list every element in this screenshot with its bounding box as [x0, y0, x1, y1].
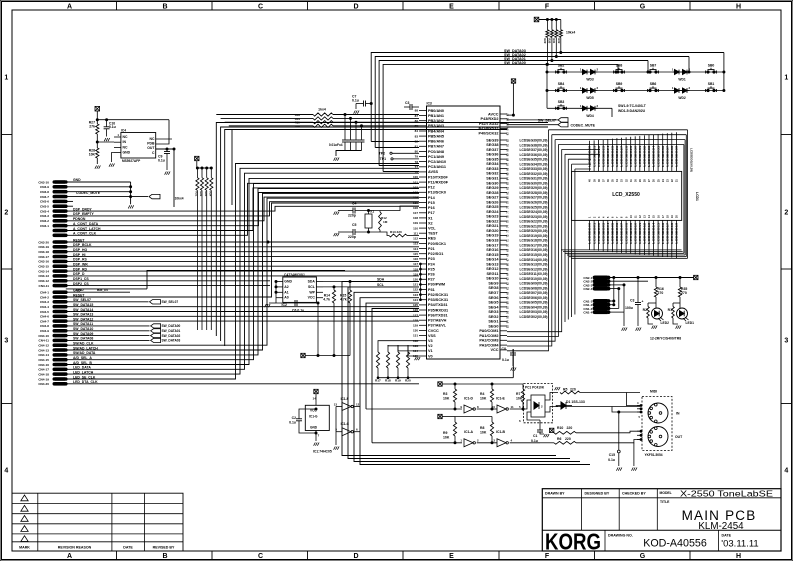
svg-text:GND: GND [284, 280, 292, 284]
svg-text:10: 10 [492, 405, 496, 409]
svg-text:TP2: TP2 [379, 152, 385, 156]
svg-text:X-2550 ToneLabSE: X-2550 ToneLabSE [680, 488, 773, 498]
svg-text:10kx4: 10kx4 [175, 197, 184, 201]
svg-text:CN4-7: CN4-7 [40, 319, 49, 323]
svg-text:SEG13: SEG13 [486, 262, 498, 266]
svg-text:R23: R23 [204, 192, 208, 197]
svg-text:G: G [640, 3, 646, 10]
svg-text:LCDSEG19(X0,39): LCDSEG19(X0,39) [520, 234, 548, 238]
svg-text:P11/RXD0F: P11/RXD0F [428, 181, 449, 185]
svg-text:1: 1 [784, 75, 788, 82]
svg-text:4: 4 [4, 468, 8, 475]
svg-text:P43/RXD2: P43/RXD2 [481, 117, 499, 121]
svg-text:CN3-15: CN3-15 [38, 265, 49, 269]
svg-text:LCDSEG32: LCDSEG32 [643, 145, 647, 166]
svg-text:SEG1: SEG1 [488, 320, 498, 324]
svg-text:D1 1SS-133: D1 1SS-133 [566, 400, 585, 404]
svg-text:CN4-3: CN4-3 [40, 300, 49, 304]
svg-text:GND: GND [123, 151, 131, 155]
svg-text:LCDSEG36(X0,39): LCDSEG36(X0,39) [520, 153, 548, 157]
svg-text:220: 220 [567, 426, 573, 430]
svg-text:CN3-4: CN3-4 [40, 209, 49, 213]
svg-text:SEG27: SEG27 [486, 196, 498, 200]
svg-text:C3: C3 [405, 101, 409, 105]
svg-text:14: 14 [313, 397, 317, 401]
svg-text:CN4-14: CN4-14 [38, 353, 49, 357]
svg-text:A2: A2 [284, 285, 288, 289]
svg-text:LCDSEG07: LCDSEG07 [620, 222, 624, 243]
svg-text:WD5: WD5 [586, 96, 593, 100]
svg-text:DRAWING NO.: DRAWING NO. [608, 534, 633, 538]
svg-text:P32/SCK31: P32/SCK31 [428, 293, 448, 297]
svg-text:R19: R19 [395, 379, 401, 383]
svg-text:G: G [640, 553, 646, 560]
svg-text:LCDSEG32(X0,39): LCDSEG32(X0,39) [520, 172, 548, 176]
svg-text:104: 104 [413, 196, 418, 200]
svg-text:SB2: SB2 [558, 64, 565, 68]
svg-text:P24: P24 [428, 262, 436, 266]
svg-text:IC1-E: IC1-E [496, 397, 505, 401]
svg-text:PA3/COM4: PA3/COM4 [479, 344, 499, 348]
svg-text:LCDSEG29(X0,39): LCDSEG29(X0,39) [520, 186, 548, 190]
svg-text:C5: C5 [352, 223, 356, 227]
svg-text:R18: R18 [385, 379, 391, 383]
svg-text:SB9: SB9 [616, 82, 623, 86]
svg-text:CN4-8: CN4-8 [40, 324, 49, 328]
svg-text:LCDSEG03: LCDSEG03 [601, 222, 605, 243]
svg-text:SEG22: SEG22 [486, 219, 498, 223]
svg-text:3: 3 [784, 338, 788, 345]
svg-text:SW_SEL07: SW_SEL07 [162, 300, 179, 304]
svg-text:122: 122 [413, 288, 418, 292]
svg-text:CN3-20: CN3-20 [38, 240, 49, 244]
svg-text:LCDSEG28: LCDSEG28 [624, 145, 628, 166]
svg-text:CN3-11: CN3-11 [39, 284, 50, 288]
svg-text:R8: R8 [480, 426, 484, 430]
svg-text:120: 120 [413, 278, 418, 282]
svg-text:LCDSEG13: LCDSEG13 [647, 222, 651, 243]
svg-text:SEG10: SEG10 [486, 277, 498, 281]
svg-text:10K: 10K [480, 397, 487, 401]
svg-text:LCDSEG16: LCDSEG16 [661, 222, 665, 243]
svg-text:LCDSEG37(X0,39): LCDSEG37(X0,39) [520, 148, 548, 152]
svg-text:83: 83 [415, 134, 419, 138]
svg-text:SEG24: SEG24 [486, 210, 499, 214]
svg-text:SEG16: SEG16 [486, 248, 498, 252]
svg-text:CN3-19: CN3-19 [38, 245, 49, 249]
svg-text:108: 108 [413, 216, 418, 220]
svg-text:4.7k: 4.7k [323, 298, 330, 302]
svg-text:86: 86 [415, 119, 419, 123]
svg-text:R4: R4 [480, 392, 484, 396]
svg-text:LCDSEG19: LCDSEG19 [675, 222, 679, 243]
svg-text:LCDSEG36: LCDSEG36 [661, 145, 665, 166]
svg-text:0.1u: 0.1u [531, 439, 538, 443]
svg-text:0.1u: 0.1u [158, 159, 165, 163]
svg-text:C15: C15 [609, 453, 615, 457]
svg-text:LCDSEG27: LCDSEG27 [620, 145, 624, 166]
svg-text:PB5/AN5: PB5/AN5 [428, 134, 444, 138]
svg-text:77: 77 [415, 165, 419, 169]
svg-text:LCDSEG04(X0,39): LCDSEG04(X0,39) [520, 305, 548, 309]
svg-text:DESIGNED BY: DESIGNED BY [585, 492, 610, 496]
svg-text:PB6/AN6: PB6/AN6 [428, 140, 444, 144]
svg-text:P23: P23 [428, 257, 435, 261]
svg-text:P26: P26 [428, 273, 435, 277]
svg-text:SEG33: SEG33 [486, 167, 498, 171]
svg-text:P36/TXD31: P36/TXD31 [428, 313, 448, 317]
svg-text:LCDSEG18(X0,39): LCDSEG18(X0,39) [520, 239, 548, 243]
svg-text:AVSS: AVSS [428, 170, 439, 174]
svg-text:1kx4: 1kx4 [318, 108, 326, 112]
svg-text:VCC: VCC [308, 296, 316, 300]
svg-text:CN4-19: CN4-19 [38, 377, 49, 381]
svg-text:109: 109 [413, 221, 418, 225]
svg-text:P12: P12 [428, 186, 435, 190]
svg-text:KORG: KORG [545, 529, 601, 555]
svg-text:R24: R24 [209, 192, 213, 197]
svg-text:SB1: SB1 [708, 82, 715, 86]
svg-text:SEG26: SEG26 [486, 200, 498, 204]
svg-text:KLM-2454: KLM-2454 [698, 521, 744, 532]
svg-text:PC1 PC410K: PC1 PC410K [525, 386, 545, 390]
svg-text:R10: R10 [557, 426, 563, 430]
svg-text:R31: R31 [552, 39, 556, 44]
svg-text:0.1u: 0.1u [109, 125, 116, 129]
svg-text:P40/SCK32: P40/SCK32 [478, 132, 498, 136]
svg-text:LCDSEG33: LCDSEG33 [647, 145, 651, 166]
svg-text:LCDSEG10(X0,39): LCDSEG10(X0,39) [520, 277, 548, 281]
svg-text:LCDSEG31(X0,39): LCDSEG31(X0,39) [520, 177, 548, 181]
svg-text:LCDSEG17(X0,39): LCDSEG17(X0,39) [520, 243, 548, 247]
svg-text:WD1: WD1 [678, 78, 685, 82]
svg-text:LCDSEG34(X0,39): LCDSEG34(X0,39) [520, 162, 548, 166]
svg-text:CN3-2: CN3-2 [40, 219, 49, 223]
svg-text:12-2R/YC/S400/TR8: 12-2R/YC/S400/TR8 [650, 337, 681, 341]
svg-text:CN4-2: CN4-2 [40, 295, 49, 299]
svg-text:LCDSEG15: LCDSEG15 [656, 222, 660, 243]
svg-text:LCDSEG25(X0,39): LCDSEG25(X0,39) [520, 205, 548, 209]
svg-text:LCDSEG01: LCDSEG01 [592, 222, 596, 243]
svg-text:116: 116 [413, 257, 418, 261]
svg-text:WD1-5:DAN202U: WD1-5:DAN202U [618, 109, 646, 113]
svg-text:125: 125 [413, 303, 418, 307]
svg-text:LCDSEG0(X0,39): LCDSEG0(X0,39) [690, 148, 694, 172]
svg-text:OUT: OUT [675, 435, 683, 439]
svg-text:LED2: LED2 [661, 321, 670, 325]
svg-text:LCDSEG04: LCDSEG04 [606, 222, 610, 243]
svg-text:LCDSEG03(X0,39): LCDSEG03(X0,39) [520, 310, 548, 314]
svg-text:X1: X1 [428, 216, 433, 220]
svg-text:CN4-4: CN4-4 [40, 305, 49, 309]
svg-text:10kx4: 10kx4 [566, 31, 575, 35]
svg-text:LCDSEG10: LCDSEG10 [633, 222, 637, 243]
svg-text:113: 113 [413, 242, 418, 246]
svg-text:LCDSEG06: LCDSEG06 [615, 222, 619, 243]
svg-text:CN3-3: CN3-3 [40, 214, 49, 218]
svg-text:B: B [162, 553, 167, 560]
svg-text:B: B [162, 3, 167, 10]
svg-text:114: 114 [413, 247, 418, 251]
svg-text:WD4: WD4 [586, 114, 593, 118]
svg-text:REVISION REASON: REVISION REASON [58, 546, 92, 550]
svg-text:CN3-16: CN3-16 [38, 260, 49, 264]
svg-text:110: 110 [413, 226, 418, 230]
svg-text:KOD-A40556: KOD-A40556 [643, 538, 707, 550]
svg-text:MODEL: MODEL [660, 491, 672, 495]
svg-text:13: 13 [334, 403, 338, 407]
svg-text:SDA: SDA [308, 280, 316, 284]
svg-text:12: 12 [356, 403, 360, 407]
svg-text:PB2/AN2: PB2/AN2 [428, 119, 444, 123]
svg-text:10K: 10K [89, 153, 96, 157]
svg-text:CHECKED BY: CHECKED BY [622, 492, 646, 496]
svg-text:SB0: SB0 [708, 64, 715, 68]
svg-text:105: 105 [413, 201, 418, 205]
svg-text:SEG4: SEG4 [488, 305, 499, 309]
svg-text:LCDSEG07(X0,39): LCDSEG07(X0,39) [520, 291, 548, 295]
svg-text:100: 100 [413, 175, 418, 179]
svg-text:CN4-17: CN4-17 [38, 368, 49, 372]
svg-text:YKF51-5054: YKF51-5054 [645, 453, 663, 457]
svg-text:LCDSEG12: LCDSEG12 [643, 222, 647, 243]
svg-text:MARK: MARK [19, 546, 30, 550]
svg-text:IC1-F: IC1-F [341, 397, 349, 401]
svg-text:IC1-A: IC1-A [464, 430, 473, 434]
svg-text:SB3: SB3 [558, 100, 565, 104]
svg-text:SEG18: SEG18 [486, 239, 498, 243]
svg-text:101: 101 [413, 180, 418, 184]
svg-text:SEG15: SEG15 [486, 253, 498, 257]
svg-text:LCDSEG20: LCDSEG20 [588, 145, 592, 166]
svg-text:CN4-9: CN4-9 [40, 329, 49, 333]
svg-text:P17: P17 [428, 211, 435, 215]
svg-text:220p: 220p [348, 214, 356, 218]
svg-text:PC3/AN11: PC3/AN11 [428, 165, 446, 169]
svg-text:0.1u: 0.1u [289, 421, 296, 425]
svg-text:CN4-20: CN4-20 [38, 382, 49, 386]
svg-text:P34/TXD31: P34/TXD31 [428, 303, 448, 307]
svg-text:LCDSEG33(X0,39): LCDSEG33(X0,39) [520, 167, 548, 171]
svg-text:IC1-D: IC1-D [464, 397, 473, 401]
svg-text:P21: P21 [428, 247, 435, 251]
svg-text:IC1:74HC05: IC1:74HC05 [313, 450, 332, 454]
svg-text:103: 103 [413, 191, 418, 195]
svg-text:130: 130 [413, 329, 418, 333]
svg-text:P33/SCK31: P33/SCK31 [428, 298, 448, 302]
svg-text:82: 82 [415, 139, 419, 143]
svg-text:GND: GND [73, 178, 81, 182]
svg-text:SEG9: SEG9 [488, 282, 498, 286]
svg-text:SEG30: SEG30 [486, 181, 498, 185]
svg-text:LCDSEG22(X0,39): LCDSEG22(X0,39) [520, 220, 548, 224]
svg-text:SEG2: SEG2 [488, 315, 498, 319]
svg-text:E: E [449, 3, 454, 10]
svg-text:R22: R22 [199, 192, 203, 197]
svg-text:LCD1: LCD1 [695, 192, 699, 201]
svg-text:LCDSEG20(X0,39): LCDSEG20(X0,39) [520, 229, 548, 233]
svg-text:4: 4 [784, 468, 788, 475]
svg-text:LCDSEG34: LCDSEG34 [652, 145, 656, 166]
svg-text:LCDSEG17: LCDSEG17 [666, 222, 670, 243]
svg-text:100u: 100u [625, 306, 633, 310]
svg-text:LCDSEG06(X0,39): LCDSEG06(X0,39) [520, 296, 548, 300]
svg-text:SEG5: SEG5 [488, 301, 498, 305]
svg-text:SEG39: SEG39 [486, 138, 498, 142]
svg-text:CN3-1: CN3-1 [40, 224, 49, 228]
svg-text:R29: R29 [543, 39, 547, 44]
svg-text:C1: C1 [533, 434, 537, 438]
svg-text:R7: R7 [516, 392, 520, 396]
svg-text:WD3: WD3 [586, 78, 593, 82]
svg-text:SEG25: SEG25 [486, 205, 498, 209]
svg-text:LCDSEG21: LCDSEG21 [592, 145, 596, 166]
svg-text:128: 128 [413, 318, 418, 322]
svg-text:LCDSEG00: LCDSEG00 [588, 222, 592, 243]
svg-text:79: 79 [415, 155, 419, 159]
svg-text:CN4-16: CN4-16 [38, 363, 49, 367]
svg-text:CN4-18: CN4-18 [38, 372, 49, 376]
svg-text:123: 123 [413, 293, 418, 297]
svg-text:10K: 10K [443, 397, 450, 401]
svg-text:CN4-5: CN4-5 [40, 310, 49, 314]
svg-text:CN3-14: CN3-14 [38, 269, 49, 273]
svg-text:CN4-13: CN4-13 [38, 348, 49, 352]
svg-text:220p: 220p [348, 235, 356, 239]
svg-text:CN4-15: CN4-15 [38, 358, 49, 362]
svg-text:LCDSEG24(X0,39): LCDSEG24(X0,39) [520, 210, 548, 214]
svg-text:R17: R17 [375, 379, 381, 383]
svg-text:A0: A0 [284, 296, 288, 300]
svg-text:LED1: LED1 [686, 321, 695, 325]
svg-text:127: 127 [413, 313, 418, 317]
svg-text:CN3-5: CN3-5 [40, 205, 49, 209]
svg-text:LCDSEG08: LCDSEG08 [624, 222, 628, 243]
svg-text:SEG38: SEG38 [486, 143, 498, 147]
svg-text:R2: R2 [643, 308, 647, 312]
svg-text:LCDSEG13(X0,39): LCDSEG13(X0,39) [520, 263, 548, 267]
svg-text:V1: V1 [428, 349, 433, 353]
svg-text:P15: P15 [428, 201, 435, 205]
svg-text:78: 78 [415, 160, 419, 164]
svg-text:SW1-9:TC-0403-T: SW1-9:TC-0403-T [618, 104, 647, 108]
svg-text:87: 87 [415, 114, 419, 118]
svg-text:DATE: DATE [123, 546, 133, 550]
svg-text:P42/TXD32: P42/TXD32 [479, 122, 499, 126]
svg-text:V0: V0 [428, 354, 433, 358]
svg-text:H: H [736, 3, 741, 10]
svg-text:LCDSEG27(X0,39): LCDSEG27(X0,39) [520, 196, 548, 200]
svg-text:OUT: OUT [147, 146, 155, 150]
svg-text:LCDSEG11(X0,39): LCDSEG11(X0,39) [520, 272, 548, 276]
svg-text:SEG6: SEG6 [488, 296, 498, 300]
svg-text:LCDSEG23(X0,39): LCDSEG23(X0,39) [520, 215, 548, 219]
svg-text:102: 102 [413, 185, 418, 189]
svg-text:IC4: IC4 [121, 129, 126, 133]
svg-text:27k: 27k [89, 125, 95, 129]
svg-text:P22/SO1: P22/SO1 [428, 252, 443, 256]
svg-text:SDA: SDA [377, 278, 385, 282]
svg-text:LCDSEG12(X0,39): LCDSEG12(X0,39) [520, 267, 548, 271]
svg-text:2: 2 [4, 210, 8, 217]
svg-text:R32: R32 [557, 39, 561, 44]
svg-text:LCDSEG29: LCDSEG29 [629, 145, 633, 166]
svg-text:124: 124 [413, 298, 418, 302]
svg-text:81: 81 [415, 145, 419, 149]
svg-text:VSS: VSS [428, 334, 436, 338]
svg-text:0.1u: 0.1u [608, 458, 615, 462]
svg-text:LCDSEG05: LCDSEG05 [611, 222, 615, 243]
svg-text:SEG31: SEG31 [486, 177, 498, 181]
svg-text:CN3-8: CN3-8 [40, 190, 49, 194]
svg-text:131: 131 [413, 334, 418, 338]
svg-text:LCDSEG11: LCDSEG11 [638, 222, 642, 243]
svg-text:SEG3: SEG3 [488, 310, 498, 314]
svg-text:H: H [736, 553, 741, 560]
svg-text:PB0/AN0: PB0/AN0 [428, 109, 444, 113]
svg-text:PC2/AN10: PC2/AN10 [428, 160, 446, 164]
svg-text:SEG7: SEG7 [488, 291, 498, 295]
svg-text:LCDSEG09(X0,39): LCDSEG09(X0,39) [520, 282, 548, 286]
svg-text:VCL: VCL [428, 227, 436, 231]
svg-text:SEG19: SEG19 [486, 234, 498, 238]
svg-text:SEG11: SEG11 [486, 272, 498, 276]
svg-text:107: 107 [413, 211, 418, 215]
svg-text:IC3: IC3 [427, 102, 432, 106]
svg-text:C4: C4 [352, 202, 356, 206]
svg-text:3: 3 [4, 338, 8, 345]
svg-text:V3: V3 [428, 339, 433, 343]
svg-text:LCDSEG23: LCDSEG23 [601, 145, 605, 166]
svg-text:AVCC: AVCC [488, 112, 499, 116]
svg-text:CN3-9: CN3-9 [40, 185, 49, 189]
svg-text:112: 112 [413, 237, 418, 241]
svg-text:SEG0: SEG0 [488, 324, 498, 328]
svg-text:PB4/AN4: PB4/AN4 [428, 129, 445, 133]
svg-text:R1: R1 [668, 308, 672, 312]
svg-text:LCDSEG16(X0,39): LCDSEG16(X0,39) [520, 248, 548, 252]
svg-text:119: 119 [413, 272, 418, 276]
svg-text:CN2-4: CN2-4 [583, 287, 592, 291]
svg-text:LCDSEG35: LCDSEG35 [656, 145, 660, 166]
svg-text:X1: X1 [370, 210, 374, 214]
svg-text:PB1/AN1: PB1/AN1 [428, 114, 444, 118]
svg-text:+: + [642, 300, 644, 304]
svg-text:SEG14: SEG14 [486, 258, 499, 262]
svg-text:R21: R21 [195, 192, 199, 197]
svg-text:P13/SCK0: P13/SCK0 [428, 191, 446, 195]
svg-text:SB8: SB8 [616, 64, 623, 68]
svg-text:P41/RXD32: P41/RXD32 [478, 127, 498, 131]
svg-text:121: 121 [413, 283, 418, 287]
svg-text:SW_DATA00: SW_DATA00 [162, 324, 181, 328]
svg-text:P37/AEVL: P37/AEVL [428, 324, 447, 328]
svg-text:LCDSEG22: LCDSEG22 [597, 145, 601, 166]
svg-text:DRAWN BY: DRAWN BY [545, 492, 565, 496]
svg-text:111: 111 [413, 231, 418, 235]
svg-text:4.7k: 4.7k [340, 298, 347, 302]
svg-text:270: 270 [658, 291, 664, 295]
svg-text:SW_DATA03: SW_DATA03 [162, 339, 181, 343]
svg-text:LCDSEG39(X0,39): LCDSEG39(X0,39) [520, 139, 548, 143]
svg-text:PA0/COM1: PA0/COM1 [479, 329, 498, 333]
svg-text:10K: 10K [443, 436, 450, 440]
svg-text:CN3-12: CN3-12 [38, 279, 49, 283]
svg-text:VCC: VCC [490, 348, 498, 352]
svg-text:2: 2 [784, 210, 788, 217]
svg-text:SEG34: SEG34 [486, 162, 499, 166]
svg-text:X2: X2 [428, 221, 433, 225]
